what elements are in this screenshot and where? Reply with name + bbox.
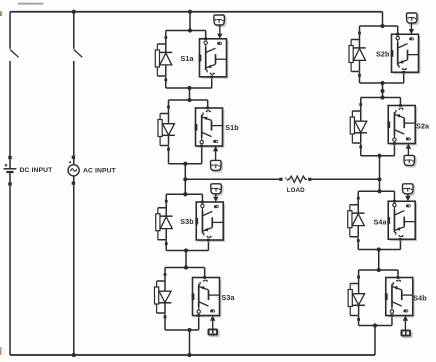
bottom horizontal bus wire — [10, 354, 375, 356]
battery symbol (DC source) — [4, 169, 17, 172]
wire (S4b block top lead) — [397, 270, 399, 278]
pin label C (S1b) — [200, 140, 203, 143]
port square (S2a snubber bottom) — [359, 146, 362, 149]
gate input port g (S4a) — [387, 217, 390, 224]
port square (S4b snubber bottom) — [357, 318, 360, 321]
plus sign (DC source polarity) — [5, 164, 8, 167]
wire (S1b snubber bottom) — [160, 145, 168, 147]
gate pulse tag block (S1a) — [214, 15, 226, 27]
pin label C (S4b) — [390, 310, 393, 313]
node (S4b bottom rail junction) — [373, 323, 377, 327]
port square (S3a emitter terminal) — [203, 276, 206, 279]
gate source block (S4b) — [401, 330, 413, 339]
node (S2b-S2a link joint) — [380, 89, 384, 93]
port square (S2a emitter terminal) — [399, 104, 402, 107]
port square (S2b emitter terminal) — [402, 71, 405, 74]
wire (S4a snubber branch top lead) — [357, 191, 359, 197]
wire (S2a snubber branch top lead) — [360, 98, 362, 104]
wire (S2a snubber branch bottom lead) — [360, 144, 362, 156]
svg-text:S3a: S3a — [221, 293, 235, 302]
wire (S1a snubber) — [157, 39, 165, 44]
wire (S2b to S2a) — [382, 83, 384, 98]
port square (S1a snubber top) — [164, 36, 167, 39]
wire (S4a snubber) — [350, 200, 358, 205]
gate input port g (S1b) — [195, 124, 198, 131]
IGBT symbol (S4b) — [392, 282, 413, 310]
gate signal arrow (S3b) — [213, 194, 218, 202]
pin label C (S4a) — [393, 203, 396, 206]
port square (S4b collector terminal) — [391, 314, 394, 317]
AC source circle — [68, 165, 79, 176]
wire (S2a cell bottom rail) — [361, 155, 395, 157]
node (S1a top rail junction) — [188, 28, 192, 32]
wire (DC source bottom lead) — [9, 172, 11, 183]
node (S1b bottom rail junction) — [183, 162, 187, 166]
wire (S2b snubber bottom) — [351, 71, 359, 73]
IGBT block S3b (body) — [196, 202, 225, 242]
wire (S4b to bottom bus) — [374, 326, 376, 356]
node (S1a bottom rail junction) — [187, 86, 191, 90]
resistor (snubber R of S3b) — [156, 208, 160, 240]
wire (S1a cell top rail) — [166, 30, 206, 32]
wire (S4b snubber branch bottom lead) — [358, 316, 360, 326]
wire (S4b snubber bottom) — [350, 315, 358, 317]
resistor (snubber R of S4a) — [348, 205, 352, 237]
port square (S1a snubber bottom) — [164, 79, 167, 82]
terminal square (DC source +) — [8, 156, 11, 159]
wire (S2b cell top rail) — [360, 25, 398, 27]
breaker switch blade (AC side) — [74, 50, 83, 58]
diode (antiparallel diode of S1a) — [160, 44, 173, 76]
gate signal arrow (S1b) — [213, 146, 218, 160]
sine wave glyph (AC source) — [70, 169, 76, 172]
IGBT symbol (S3a) — [199, 282, 220, 310]
resistor (snubber R of S3a) — [155, 281, 159, 313]
top horizontal bus wire — [10, 11, 383, 13]
wire (S2b snubber) — [351, 34, 359, 39]
port square (S4a emitter terminal) — [399, 238, 402, 241]
svg-text:AC INPUT: AC INPUT — [83, 167, 117, 174]
IGBT symbol (S4a) — [394, 207, 415, 235]
wire (S3b snubber bottom) — [158, 239, 166, 241]
port square (S3b emitter terminal) — [207, 239, 210, 242]
wire (AC source column middle) — [73, 61, 75, 156]
node (left bridge midpoint) — [183, 177, 187, 181]
wire (S1a block bottom lead) — [211, 77, 213, 88]
pin label E (S2b) — [402, 68, 406, 70]
port square (S2b snubber top) — [358, 32, 361, 35]
pin label m output port (S3a) — [210, 309, 215, 312]
gate pulse tag block (S1b) — [211, 160, 223, 172]
wire (left midpoint to LOAD) — [185, 178, 280, 180]
wire (S1a snubber branch bottom lead) — [165, 77, 167, 89]
wire (S4b cell bottom rail) — [359, 325, 392, 327]
wire (S1b block bottom lead) — [201, 146, 203, 164]
wire (S2b block bottom lead) — [403, 72, 405, 83]
wire (S4b snubber branch top lead) — [358, 270, 360, 276]
IGBT block S1b (body) — [196, 108, 225, 148]
svg-text:DC INPUT: DC INPUT — [20, 167, 54, 174]
port square (S2b snubber bottom) — [358, 74, 361, 77]
pin label m output port (S3b) — [214, 205, 219, 208]
wire (S2a block top lead) — [399, 98, 401, 106]
diode (antiparallel diode of S2a) — [354, 111, 367, 143]
terminal square (DC source -) — [8, 182, 11, 185]
node (top bus / AC column junction) — [72, 10, 76, 14]
node (bottom bus / AC column junction) — [72, 353, 76, 357]
svg-text:S1a: S1a — [180, 54, 194, 63]
gate pulse tag block (S2a) — [404, 155, 416, 167]
wire (S3b to S3a) — [185, 251, 187, 268]
wire (S3a snubber bottom) — [157, 312, 165, 314]
diode (antiparallel diode of S2b) — [353, 40, 366, 72]
wire (S3b snubber) — [158, 203, 166, 208]
wire (DC source column lower) — [9, 186, 11, 355]
port square (S1b snubber bottom) — [167, 148, 170, 151]
pin label C (S3b) — [201, 204, 204, 207]
resistor (snubber R of S2b) — [349, 40, 353, 72]
wire (S1a snubber bottom) — [157, 75, 165, 77]
port square (S1b emitter terminal) — [206, 107, 209, 110]
wire (DC source column upper) — [9, 12, 11, 49]
wire (S4b snubber) — [350, 278, 358, 283]
wire (S3b cell top rail) — [166, 193, 202, 195]
wire (S3b block bottom lead) — [207, 240, 209, 251]
gate signal arrow (S2a) — [406, 144, 411, 156]
wire (S1a cell bottom rail) — [166, 87, 212, 89]
wire (S1a block top lead) — [205, 31, 207, 39]
IGBT symbol (S1b) — [202, 112, 223, 140]
terminal square (AC source top) — [72, 156, 75, 159]
node (S1b top rail junction) — [187, 98, 191, 102]
wire (AC source column upper) — [73, 12, 75, 49]
svg-text:S2b: S2b — [376, 50, 390, 59]
node (S2a top rail junction) — [380, 95, 384, 99]
gate input port g (S3a) — [192, 293, 195, 300]
pin label m output port (S4b) — [403, 309, 408, 312]
gate input port g (S2b) — [391, 50, 394, 57]
wire (S3a snubber branch bottom lead) — [164, 314, 166, 331]
IGBT symbol (S2a) — [394, 110, 415, 138]
pin label m output port (S2a) — [406, 137, 411, 140]
gate input port g (S1a) — [199, 55, 202, 62]
wire (S1a to S1b) — [189, 88, 191, 100]
port square (S1a emitter terminal) — [210, 75, 213, 78]
gate signal arrow (S2b) — [409, 23, 414, 34]
diode (antiparallel diode of S1b) — [162, 114, 175, 146]
node (S3a bottom rail junction) — [187, 328, 191, 332]
wire (S2a block bottom lead) — [393, 144, 395, 156]
wire (S2b snubber branch bottom lead) — [359, 72, 361, 83]
wire (S4a snubber branch bottom lead) — [357, 237, 359, 249]
gate input port g (S3b) — [195, 218, 198, 225]
breaker switch blade (DC side) — [10, 50, 19, 58]
wire (S2a snubber) — [352, 106, 360, 111]
gate input port g (S2a) — [387, 121, 390, 128]
wire (S3a block top lead) — [204, 268, 206, 278]
port square (S4b emitter terminal) — [397, 276, 400, 279]
title smudge artifact — [18, 3, 44, 5]
wire (S4a cell top rail) — [358, 190, 394, 192]
port square (S4a snubber bottom) — [357, 239, 360, 242]
svg-text:S1b: S1b — [225, 123, 239, 132]
wire (S3a block bottom lead) — [198, 316, 200, 331]
wire (AC source bottom lead) — [73, 176, 75, 182]
wire (S3a snubber branch top lead) — [164, 268, 166, 274]
pin label E (S4b) — [397, 280, 401, 282]
wire (AC source top lead) — [73, 159, 75, 165]
node (S3b bottom rail junction) — [184, 248, 188, 252]
node (S3b top rail junction) — [183, 192, 187, 196]
pin label m output port (S2b) — [409, 37, 414, 40]
svg-text:S2a: S2a — [416, 122, 430, 131]
port square (S3b snubber bottom) — [165, 242, 168, 245]
port square (S2a snubber top) — [359, 103, 362, 106]
svg-text:S4a: S4a — [373, 218, 387, 227]
wire (top bus to S1a) — [189, 12, 191, 31]
port square (S3b collector terminal) — [201, 201, 204, 204]
red edge artifact top-left — [0, 11, 2, 16]
IGBT block S2a (body) — [388, 106, 417, 146]
node (S2b bottom rail junction) — [380, 81, 384, 85]
wire (top bus right drop) — [382, 12, 384, 26]
wire (LOAD to right midpoint) — [311, 178, 379, 180]
wire (S2a to S4a through right midpoint) — [379, 156, 381, 192]
port square (LOAD right terminal) — [308, 178, 311, 181]
port square (S2b collector terminal) — [396, 33, 399, 36]
gate pulse tag block (S4a) — [403, 184, 415, 196]
svg-text:S4b: S4b — [413, 294, 427, 303]
gate signal arrow (S4b) — [403, 316, 408, 330]
IGBT symbol (S3b) — [202, 208, 223, 236]
port square (S3b snubber top) — [165, 200, 168, 203]
pin label E (S3a) — [203, 280, 207, 282]
port square (S2a collector terminal) — [393, 142, 396, 145]
pin label E (S4a) — [399, 235, 403, 237]
wire (S4a snubber bottom) — [350, 236, 358, 238]
wire (S3b snubber branch top lead) — [165, 194, 167, 200]
red tick artifact (LOAD left) — [285, 178, 288, 181]
pin label C (S2b) — [396, 36, 399, 39]
resistor (snubber R of S1b) — [158, 114, 162, 146]
pin label m output port (S1b) — [213, 140, 218, 143]
port square (S1b snubber top) — [167, 106, 170, 109]
diode (antiparallel diode of S4b) — [352, 284, 365, 316]
node (S4a top rail junction) — [377, 189, 381, 193]
svg-text:S3b: S3b — [180, 217, 194, 226]
gate pulse tag block (S2b) — [407, 13, 419, 25]
wire (DC source top lead) — [9, 159, 11, 168]
wire (S1b snubber branch top lead) — [168, 100, 170, 106]
wire (S2a snubber bottom) — [352, 142, 360, 144]
port square (S3a snubber top) — [164, 273, 167, 276]
wire (S1b snubber) — [160, 108, 168, 113]
port square (S3a collector terminal) — [197, 314, 200, 317]
pin label m output port (S1a) — [217, 42, 222, 45]
port square (S1a collector terminal) — [204, 37, 207, 40]
port square (S4b snubber top) — [357, 276, 360, 279]
node (S2a bottom rail junction) — [377, 154, 381, 158]
IGBT symbol (S2b) — [398, 40, 419, 68]
wire (S2b cell bottom rail) — [360, 82, 404, 84]
pin label E (S1b) — [206, 111, 210, 113]
IGBT block S2b (body) — [392, 34, 421, 74]
wire (S3a cell top rail) — [165, 267, 205, 269]
pin label C (S3a) — [197, 310, 200, 313]
node (top bus / S1 column junction) — [188, 10, 192, 14]
resistor (snubber R of S2a) — [350, 111, 354, 143]
wire (S2b block top lead) — [397, 26, 399, 34]
node (right bridge midpoint) — [377, 177, 381, 181]
pin label C (S1a) — [204, 41, 207, 44]
resistor (snubber R of S4b) — [348, 284, 352, 316]
IGBT block S4b (body) — [386, 278, 415, 318]
resistor (snubber R of S1a) — [155, 44, 159, 76]
pin label C (S2a) — [393, 138, 396, 141]
IGBT block S3a (body) — [193, 278, 222, 318]
wire (S1b snubber branch bottom lead) — [168, 146, 170, 164]
node (S3a top rail junction) — [184, 265, 188, 269]
wire (S1b to S3b through left midpoint) — [184, 164, 186, 195]
resistor LOAD (zigzag) — [288, 176, 307, 182]
svg-text:LOAD: LOAD — [287, 187, 305, 194]
gate input port g (S4b) — [385, 293, 388, 300]
wire (S3b snubber branch bottom lead) — [165, 240, 167, 250]
IGBT block S1a (body) — [200, 39, 229, 79]
port square (S4a snubber top) — [357, 197, 360, 200]
port square (S1b collector terminal) — [200, 145, 203, 148]
node (S2b top rail junction) — [380, 24, 384, 28]
pin label E (S1a) — [210, 73, 214, 75]
node (S4b top rail junction) — [377, 268, 381, 272]
wire (S3a cell bottom rail) — [165, 329, 199, 331]
terminal square (AC source bottom) — [72, 181, 75, 184]
node (S4a bottom rail junction) — [377, 247, 381, 251]
wire (S4a block bottom lead) — [399, 239, 401, 249]
wire (S4a block top lead) — [393, 191, 395, 201]
wire (S3b block top lead) — [201, 194, 203, 202]
wire (S1a snubber branch top lead) — [165, 31, 167, 37]
plus sign (AC source polarity) — [69, 161, 71, 163]
gate signal arrow (S3a) — [210, 316, 215, 329]
wire (DC source column middle) — [9, 61, 11, 156]
IGBT block S4a (body) — [388, 201, 417, 241]
port square (S4a collector terminal) — [393, 200, 396, 203]
wire (S4a to S4b) — [378, 250, 380, 271]
IGBT symbol (S1a) — [206, 44, 227, 72]
gate pulse tag block (S3b) — [211, 184, 223, 196]
wire (S4b cell top rail) — [359, 269, 398, 271]
diode (antiparallel diode of S3b) — [160, 208, 173, 240]
wire (S1b block top lead) — [207, 100, 209, 108]
diode (antiparallel diode of S4a) — [352, 205, 365, 237]
wire (S3b cell bottom rail) — [166, 250, 208, 252]
wire (S4a cell bottom rail) — [358, 249, 400, 251]
pin label E (S2a) — [399, 108, 403, 110]
wire (S3a to bottom bus) — [189, 330, 191, 355]
node (bottom bus / S3 column junction) — [187, 353, 191, 357]
wire (S3a snubber) — [157, 276, 165, 281]
pin label m output port (S4a) — [406, 204, 411, 207]
red edge artifact bottom-left — [0, 347, 2, 355]
wire (S4b block bottom lead) — [391, 316, 393, 326]
wire (S1b cell top rail) — [169, 99, 208, 101]
port square (S3a snubber bottom) — [164, 316, 167, 319]
wire (S2a cell top rail) — [361, 97, 401, 99]
gate source block (S3a) — [208, 329, 220, 338]
pin label E (S3b) — [207, 236, 211, 238]
wire (AC source column lower) — [73, 185, 75, 355]
gate signal arrow (S1a) — [217, 25, 222, 39]
gate signal arrow (S4a) — [405, 194, 410, 201]
wire (S1b cell bottom rail) — [169, 163, 202, 165]
port square (LOAD left terminal) — [279, 178, 282, 181]
wire (S2b snubber branch top lead) — [359, 26, 361, 32]
diode (antiparallel diode of S3a) — [159, 281, 172, 313]
